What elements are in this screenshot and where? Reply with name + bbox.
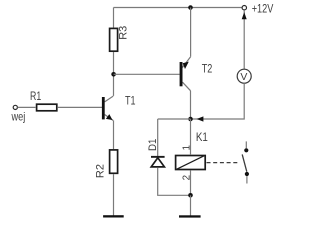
dashed link relay to contact [207, 162, 241, 164]
wire K1 pin2 [190, 171, 192, 196]
node ground junction [188, 193, 193, 198]
wire right branch vertical upper [243, 10, 245, 69]
relay coil diagonal [177, 156, 205, 170]
wire R3 to T1 collector [113, 52, 115, 96]
meter V circle U1 [237, 69, 251, 83]
wire to ground right [190, 195, 192, 215]
T1 collector diagonal [105, 96, 114, 102]
wire right branch vertical lower [191, 83, 245, 119]
switch contact S1 [242, 141, 249, 183]
D1 cathode bar [151, 156, 165, 158]
wire T2 emitter to rail [190, 8, 192, 57]
contact stub bottom [246, 176, 248, 183]
wire T2 collector down [190, 91, 192, 119]
svg-text:wej: wej [11, 111, 26, 124]
svg-text:R3: R3 [118, 26, 130, 40]
contact dot top [244, 148, 248, 152]
svg-text:T1: T1 [125, 95, 136, 108]
wire R1 to T1 base [58, 106, 102, 108]
contact lever [242, 154, 247, 171]
wire T1 emitter to R2 [113, 121, 115, 150]
T1 emitter diagonal [105, 115, 114, 121]
resistor R3 [113, 8, 115, 28]
node junction rail/T2 [188, 5, 193, 10]
diode D1 [151, 156, 165, 167]
svg-text:K1: K1 [196, 131, 208, 144]
transistor T2 [180, 57, 191, 91]
node K1/D1/load junction [188, 117, 193, 122]
D1 triangle [151, 158, 164, 167]
ground right [179, 215, 201, 217]
T2 collector diagonal bottom [183, 82, 191, 91]
wire K1 pin1 [190, 119, 192, 154]
wire R2 to ground [113, 174, 115, 215]
wire node to D1 [158, 118, 191, 120]
wire D1 top [157, 119, 159, 156]
svg-text:+12V: +12V [252, 3, 274, 16]
relay K1 [176, 156, 206, 170]
T1 emitter arrow [106, 114, 113, 120]
wire top rail +12V [114, 7, 242, 9]
svg-text:D1: D1 [147, 139, 159, 151]
svg-text:R1: R1 [30, 90, 41, 103]
T2 emitter diagonal top [182, 57, 190, 68]
svg-text:R2: R2 [95, 164, 107, 178]
resistor R2 [110, 150, 118, 173]
T2 base bar [180, 62, 183, 86]
T1 base bar [102, 97, 105, 119]
arrow current up toward +12V [242, 12, 247, 19]
ground left [103, 215, 124, 217]
svg-text:T2: T2 [202, 62, 213, 75]
contact stub top [245, 141, 247, 148]
resistor R1 [37, 104, 57, 111]
svg-text:1: 1 [182, 145, 193, 150]
arrow current left toward node [197, 116, 204, 121]
T2 emitter arrow [183, 62, 189, 69]
wire T2 base [114, 73, 180, 75]
terminal input wej [13, 105, 17, 109]
contact dot bottom [245, 172, 249, 176]
terminal +12V [242, 6, 246, 10]
transistor T1 [102, 96, 113, 120]
wire D1 bottom [158, 168, 191, 196]
svg-text:V: V [240, 71, 247, 83]
node T2 base tap [111, 72, 116, 77]
wire input to R1 [18, 106, 36, 108]
